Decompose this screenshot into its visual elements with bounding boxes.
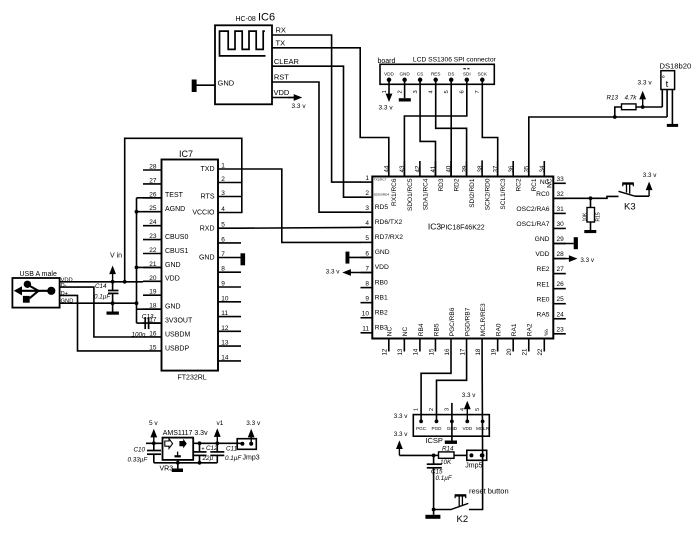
svg-text:6: 6: [365, 250, 369, 257]
svg-text:TXD: TXD: [201, 166, 215, 173]
svg-text:C13: C13: [142, 313, 154, 320]
svg-text:7: 7: [475, 90, 481, 93]
svg-text:RB2: RB2: [375, 309, 388, 316]
svg-text:ICSP: ICSP: [425, 436, 443, 445]
svg-text:1: 1: [414, 408, 420, 411]
svg-text:board: board: [378, 58, 396, 65]
connector USB A male: [12, 271, 73, 308]
svg-text:3: 3: [365, 205, 369, 212]
node V-in junction: [111, 280, 127, 284]
svg-text:23: 23: [557, 326, 565, 333]
svg-text:VDD: VDD: [384, 72, 394, 77]
svg-text:FT232RL: FT232RL: [178, 375, 207, 382]
svg-text:0.33µF: 0.33µF: [128, 457, 149, 464]
svg-text:24: 24: [557, 311, 565, 318]
svg-text:NC: NC: [402, 327, 409, 337]
module IC6 HC-08 bluetooth: [215, 12, 299, 105]
ground IC3 pin6 GND: [346, 252, 373, 264]
wire gnd rail AMS1117: [154, 461, 218, 465]
node Jmp5/MCLR junction: [481, 454, 485, 458]
svg-text:SCK2/RD0: SCK2/RD0: [485, 178, 492, 210]
svg-text:23: 23: [149, 233, 157, 240]
svg-text:25: 25: [557, 296, 565, 303]
power 3.3v IC3 pin7 VDD: [326, 269, 373, 276]
svg-text:36: 36: [508, 165, 515, 172]
wire MCLR IC3 pin18 to ICSP pin5 / Jmp5 / K2: [469, 352, 483, 510]
svg-text:31: 31: [557, 206, 565, 213]
svg-text:2: 2: [221, 176, 225, 183]
svg-text:14: 14: [413, 348, 420, 355]
svg-text:2: 2: [397, 90, 403, 93]
svg-text:TX1/RC7: TX1/RC7: [374, 177, 387, 181]
svg-text:17: 17: [459, 348, 466, 355]
svg-text:16: 16: [444, 348, 451, 355]
svg-text:CLEAR: CLEAR: [274, 57, 300, 66]
svg-text:RC0: RC0: [536, 191, 550, 198]
svg-text:R13: R13: [607, 95, 619, 102]
sensor DS18b20: [660, 62, 692, 125]
svg-text:PGC: PGC: [416, 426, 427, 431]
svg-text:Jmp3: Jmp3: [243, 454, 260, 461]
jumper Jmp5: [465, 450, 486, 469]
svg-text:OSC2/RA6: OSC2/RA6: [516, 206, 549, 213]
wire CLEAR IC6 to IC3 pin2: [272, 66, 361, 197]
svg-text:+: +: [201, 446, 204, 452]
svg-text:24: 24: [149, 219, 157, 226]
svg-text:RD2: RD2: [453, 178, 460, 191]
svg-text:5: 5: [475, 408, 481, 411]
svg-text:38: 38: [477, 165, 484, 172]
svg-text:20: 20: [149, 275, 157, 282]
svg-text:RD3: RD3: [438, 178, 445, 191]
svg-text:RA2: RA2: [527, 323, 534, 336]
wire VDD USB to IC7 pin20: [60, 281, 143, 283]
svg-text:29: 29: [557, 236, 565, 243]
wire RES LCD to IC3 pin39 SDI2/RD1: [436, 80, 467, 177]
svg-text:35: 35: [523, 165, 530, 172]
wire PGD IC3 pin17 to ICSP pin2: [437, 352, 467, 422]
svg-text:3: 3: [221, 190, 225, 197]
svg-text:22: 22: [537, 348, 544, 355]
svg-text:12: 12: [382, 348, 389, 355]
svg-text:VDD: VDD: [165, 276, 180, 283]
wire RX IC6 to IC3 pin1: [272, 35, 361, 182]
svg-text:30: 30: [557, 221, 565, 228]
svg-text:4.7k: 4.7k: [625, 95, 638, 102]
svg-text:RXD: RXD: [200, 225, 215, 232]
svg-text:12: 12: [221, 325, 229, 332]
ground C14: [107, 312, 119, 315]
svg-text:RES: RES: [431, 72, 440, 77]
svg-text:VDD: VDD: [462, 426, 472, 431]
svg-text:3.3 v: 3.3 v: [394, 413, 409, 420]
svg-text:13: 13: [397, 348, 404, 355]
svg-text:3.3 v: 3.3 v: [462, 392, 477, 399]
svg-text:MCLR/RE3: MCLR/RE3: [480, 303, 487, 336]
svg-text:8: 8: [221, 266, 225, 273]
svg-text:RX1/RC6: RX1/RC6: [391, 178, 398, 206]
svg-text:GND: GND: [165, 262, 181, 269]
net label 3.3v (left of ICSP): [394, 413, 409, 420]
svg-text:RB0: RB0: [375, 279, 388, 286]
svg-text:SDO2/RD4: SDO2/RD4: [374, 192, 390, 196]
svg-text:0.1µF: 0.1µF: [225, 455, 242, 462]
svg-text:3.3 v: 3.3 v: [643, 172, 658, 179]
svg-text:VDD: VDD: [274, 88, 290, 97]
wire GND USB to IC7 gnd rail: [60, 302, 137, 304]
power 3.3v R13 pullup: [638, 80, 653, 109]
svg-text:11: 11: [362, 326, 369, 333]
svg-text:4: 4: [221, 206, 225, 213]
svg-text:40: 40: [446, 165, 453, 172]
svg-text:RST: RST: [274, 73, 289, 82]
svg-text:USBDM: USBDM: [165, 331, 190, 338]
capacitor C15 0.1uF: [427, 454, 453, 510]
svg-text:8: 8: [365, 280, 369, 287]
svg-text:SCK: SCK: [478, 72, 488, 77]
svg-text:37: 37: [492, 165, 499, 172]
power 3.3v MCLR pullup: [394, 431, 434, 456]
svg-text:0.1µF: 0.1µF: [94, 294, 111, 301]
wire PGC IC3 pin16 to ICSP pin1: [421, 352, 451, 422]
svg-text:42: 42: [415, 165, 422, 172]
node R13 junction: [613, 115, 617, 119]
svg-text:VR3: VR3: [160, 465, 174, 472]
ground R15: [584, 230, 596, 233]
ground IC6 GND: [192, 80, 215, 93]
svg-text:CS: CS: [417, 72, 423, 77]
svg-text:6: 6: [460, 90, 466, 93]
wire D- USB to IC7 pin16 USBDM: [60, 287, 143, 337]
svg-text:GND: GND: [199, 255, 215, 262]
regulator VR3 AMS1117 3.3v: [146, 430, 208, 472]
svg-text:13: 13: [221, 340, 229, 347]
svg-text:PGC/RB6: PGC/RB6: [449, 307, 456, 336]
svg-text:3.3 v: 3.3 v: [246, 420, 261, 427]
svg-text:HC-08: HC-08: [236, 16, 256, 23]
svg-text:VCCIO: VCCIO: [192, 210, 215, 217]
node 5v/C10 junction: [152, 441, 156, 445]
svg-text:RE0: RE0: [536, 296, 549, 303]
connector LCD SS1306 SPI: [378, 57, 497, 94]
power V in arrow: [109, 252, 122, 282]
svg-text:10: 10: [362, 311, 370, 318]
svg-text:3.3 v: 3.3 v: [326, 269, 341, 276]
wire RXD IC7 pin5 to IC3 pin4 RD6/TX2: [241, 226, 361, 229]
svg-text:26: 26: [557, 281, 565, 288]
svg-text:1: 1: [365, 175, 369, 182]
svg-text:28: 28: [149, 164, 157, 171]
svg-text:28: 28: [557, 251, 565, 258]
svg-text:27: 27: [557, 266, 565, 273]
wire GND rail IC7 (TEST/AGND/GND pins): [135, 198, 162, 323]
svg-text:V in: V in: [110, 252, 122, 259]
svg-text:3.3 v: 3.3 v: [638, 80, 653, 87]
svg-text:1: 1: [382, 90, 388, 93]
node R15 junction: [589, 196, 593, 200]
svg-text:3: 3: [413, 90, 419, 93]
svg-text:v1: v1: [217, 420, 224, 427]
svg-text:MCLR: MCLR: [476, 426, 490, 431]
button K2 reset: [434, 486, 509, 525]
svg-text:5: 5: [221, 222, 225, 229]
svg-text:7: 7: [365, 265, 369, 272]
svg-text:RA1: RA1: [511, 323, 518, 336]
svg-text:15: 15: [149, 344, 157, 351]
resistor R13 4.7k: [607, 95, 663, 118]
svg-text:RD5: RD5: [375, 204, 389, 211]
svg-text:RD7/RX2: RD7/RX2: [375, 234, 404, 241]
capacitor C10 0.33uF: [128, 443, 162, 463]
ground DS18b20: [667, 124, 678, 127]
power 5v arrow: [149, 420, 158, 444]
connector ICSP: [413, 403, 489, 445]
svg-text:3V3OUT: 3V3OUT: [165, 317, 193, 324]
wire VR3 output to Jmp3: [193, 441, 242, 445]
jumper Jmp3: [237, 439, 260, 462]
wire one-wire data IC3 pin35 RC1 to DS18b20: [529, 117, 667, 177]
svg-text:43: 43: [399, 165, 406, 172]
resistor R15 10K: [583, 198, 602, 230]
svg-text:NC: NC: [387, 327, 394, 337]
svg-text:GND: GND: [399, 72, 410, 77]
ground IC3 pin29 GND: [553, 237, 578, 249]
svg-text:C14: C14: [95, 283, 107, 290]
svg-text:DS: DS: [448, 72, 454, 77]
svg-text:R15: R15: [596, 212, 602, 221]
svg-text:TEST: TEST: [165, 192, 184, 199]
svg-text:10K: 10K: [583, 212, 589, 222]
svg-text:GND: GND: [535, 236, 550, 243]
svg-text:RX: RX: [276, 26, 286, 35]
capacitor C11 0.1uF: [210, 443, 242, 463]
svg-text:TX: TX: [276, 38, 286, 47]
svg-text:7: 7: [221, 251, 225, 258]
svg-text:AGND: AGND: [165, 206, 185, 213]
power 3.3v IC3 pin28 VDD: [553, 255, 595, 264]
svg-text:33: 33: [557, 176, 565, 183]
wire TXD IC7 pin1 to IC3 pin5 RD7/RX2: [241, 169, 361, 242]
ground VR3 tab: [172, 460, 183, 472]
svg-text:RA5: RA5: [536, 311, 549, 318]
svg-text:14: 14: [221, 354, 229, 361]
svg-text:USBDP: USBDP: [165, 345, 189, 352]
svg-text:VDD: VDD: [535, 251, 549, 258]
svg-text:RE2: RE2: [536, 266, 549, 273]
svg-text:GND: GND: [218, 79, 235, 88]
svg-text:reset button: reset button: [469, 486, 509, 495]
svg-text:DS18b20: DS18b20: [660, 62, 692, 71]
svg-text:K3: K3: [624, 202, 636, 213]
svg-text:PGD: PGD: [432, 426, 443, 431]
svg-text:22: 22: [149, 247, 157, 254]
svg-text:16: 16: [149, 330, 157, 337]
svg-text:SCL1/RC3: SCL1/RC3: [500, 178, 507, 209]
svg-text:NC: NC: [547, 178, 554, 188]
svg-text:SDI2/RD1: SDI2/RD1: [469, 178, 476, 208]
svg-text:OSC1/RA7: OSC1/RA7: [516, 221, 549, 228]
svg-text:RA0: RA0: [496, 323, 503, 336]
svg-text:AMS1117 3.3v: AMS1117 3.3v: [163, 430, 208, 437]
wire D+ USB to IC7 pin15 USBDP: [60, 295, 143, 351]
power 3.3v LCD pin1 (arrow down): [379, 80, 394, 112]
svg-text:39: 39: [461, 165, 468, 172]
svg-text:IC7: IC7: [179, 149, 193, 159]
svg-text:34: 34: [539, 165, 546, 172]
svg-text:15: 15: [428, 348, 435, 355]
svg-text:GND: GND: [375, 249, 390, 256]
svg-text:1: 1: [221, 163, 225, 170]
svg-text:IC3: IC3: [428, 222, 442, 232]
capacitor C13 100n: [132, 313, 162, 338]
power v1 arrow: [214, 420, 224, 444]
svg-text:t: t: [666, 79, 669, 90]
svg-text:PIC18F46K22: PIC18F46K22: [441, 225, 485, 232]
svg-text:3.3 v: 3.3 v: [580, 257, 595, 264]
svg-text:21: 21: [522, 348, 529, 355]
svg-text:2: 2: [429, 408, 435, 411]
svg-text:5: 5: [444, 90, 450, 93]
svg-text:3: 3: [445, 408, 451, 411]
svg-text:3.3 v: 3.3 v: [379, 105, 394, 112]
svg-text:RE1: RE1: [536, 281, 549, 288]
svg-text:VDD: VDD: [375, 264, 389, 271]
svg-text:D-: D-: [61, 283, 67, 289]
svg-text:SDO1/RC5: SDO1/RC5: [407, 178, 414, 211]
svg-text:RD6/TX2: RD6/TX2: [375, 219, 403, 226]
svg-text:C11: C11: [226, 445, 237, 452]
power 3.3v ICSP pin4: [462, 392, 477, 421]
svg-text:RC1: RC1: [531, 178, 538, 191]
svg-text:20: 20: [506, 348, 513, 355]
wire SCK LCD to IC3 pin37 SCL1/RC3: [482, 80, 497, 177]
wire TX IC6 to IC3 pin44: [272, 48, 389, 162]
svg-text:CBUS0: CBUS0: [165, 234, 188, 241]
wire DS LCD to IC3 pin40 RD2: [450, 80, 452, 177]
svg-text:2: 2: [365, 190, 369, 197]
svg-text:0.1µF: 0.1µF: [436, 475, 453, 482]
svg-text:5: 5: [365, 235, 369, 242]
power 3.3v IC6 VDD: [272, 94, 306, 110]
svg-text:USB A male: USB A male: [20, 271, 57, 278]
resistor R14 10K: [434, 445, 467, 466]
svg-text:C10: C10: [134, 447, 146, 454]
power 3.3v K3: [641, 172, 657, 196]
svg-text:19: 19: [149, 289, 157, 296]
ground LCD pin2: [399, 80, 411, 102]
svg-text:11: 11: [221, 310, 228, 317]
svg-text:RTS: RTS: [201, 194, 215, 201]
wire SDI LCD to IC3 pin43 SDO1/RC5: [404, 80, 466, 177]
wire CS LCD to IC3 pin41 RD3: [420, 80, 435, 177]
svg-text:°: °: [662, 75, 665, 84]
capacitor C14 0.1uF: [94, 282, 119, 312]
svg-text:SDA1/RC4: SDA1/RC4: [422, 178, 429, 210]
svg-text:PGD/RB7: PGD/RB7: [464, 307, 471, 336]
svg-text:Jmp5: Jmp5: [465, 462, 482, 469]
ground IC7 pin7 GND: [241, 253, 246, 265]
svg-text:32: 32: [557, 191, 565, 198]
IC U3 PIC18F46K22 (IC3): [361, 160, 566, 355]
capacitor C12 22u electrolytic: [193, 443, 219, 463]
ground ICSP pin3: [445, 421, 457, 444]
svg-text:IC6: IC6: [258, 12, 275, 24]
svg-text:3.3 v: 3.3 v: [292, 103, 307, 110]
svg-text:RB5: RB5: [433, 323, 440, 336]
svg-text:RB4: RB4: [418, 323, 425, 336]
node C14/GND junction: [111, 301, 115, 305]
svg-text:18: 18: [475, 348, 482, 355]
svg-text:19: 19: [490, 348, 497, 355]
svg-text:9: 9: [365, 295, 369, 302]
svg-text:CBUS1: CBUS1: [165, 248, 188, 255]
svg-text:10: 10: [221, 295, 229, 302]
svg-text:RB1: RB1: [375, 294, 388, 301]
svg-text:LCD SS1306 SPI connector: LCD SS1306 SPI connector: [413, 57, 497, 64]
svg-text:4: 4: [365, 220, 369, 227]
button K3: [619, 184, 642, 213]
svg-text:RA3: RA3: [544, 330, 548, 336]
wire VCCIO IC7 pin4 to V-in rail: [125, 138, 242, 281]
svg-text:GND: GND: [165, 304, 181, 311]
svg-text:10K: 10K: [440, 459, 452, 466]
power 3.3v Jmp3: [246, 420, 261, 444]
ground C15/K2: [425, 508, 440, 519]
svg-text:SDI: SDI: [463, 72, 471, 77]
svg-text:R14: R14: [442, 445, 454, 452]
svg-text:27: 27: [149, 177, 157, 184]
wire RST IC6 to IC3 pin3: [272, 82, 361, 212]
svg-text:K2: K2: [457, 514, 469, 525]
IC U7 FT232RL (IC7): [143, 149, 241, 382]
svg-text:5 v: 5 v: [149, 420, 158, 427]
svg-text:9: 9: [221, 281, 225, 288]
svg-text:3.3 v: 3.3 v: [394, 431, 409, 438]
svg-text:44: 44: [384, 165, 391, 172]
svg-text:6: 6: [221, 236, 225, 243]
wire RC0 IC3 pin32 to K3: [553, 196, 618, 198]
svg-text:41: 41: [430, 165, 437, 172]
svg-text:RC2: RC2: [516, 178, 523, 191]
